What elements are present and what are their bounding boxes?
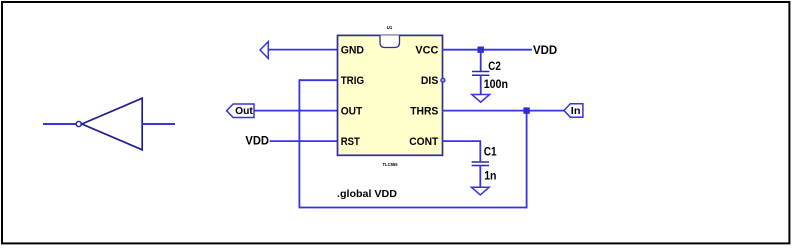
wire GND pin to arrow (268, 49, 338, 51)
svg-text:GND: GND (341, 44, 364, 56)
svg-text:100n: 100n (484, 77, 508, 91)
wire C2 to ground (480, 75, 482, 94)
DIS unconnected pin marker (441, 78, 445, 82)
capacitor C1 (472, 161, 489, 163)
capacitor C2 (472, 71, 489, 73)
junction at VCC/C2 (478, 47, 484, 53)
svg-text:TLC555: TLC555 (383, 162, 398, 168)
wire right vertical of feedback loop (526, 111, 528, 209)
inverter output wire (142, 123, 175, 125)
inverter bubble (76, 121, 81, 126)
ground symbol at C1 (471, 187, 489, 195)
svg-text:THRS: THRS (410, 106, 438, 118)
svg-text:VDD: VDD (245, 134, 269, 148)
port arrow on GND net (260, 42, 268, 59)
wire TRIG vertical down (298, 79, 300, 208)
svg-text:In: In (571, 106, 581, 117)
wire C1 to ground (479, 166, 481, 188)
inverter input wire (43, 123, 76, 125)
port In (564, 104, 583, 118)
wire CONT to C1 (442, 141, 480, 161)
svg-text:C1: C1 (484, 145, 497, 159)
wire THRS to junction and In port (442, 110, 564, 112)
wire OUT pin to Out port (254, 110, 338, 112)
svg-text:VCC: VCC (415, 44, 438, 56)
wire TRIG pin horizontal (299, 79, 338, 81)
wire junction down to C2 (480, 50, 482, 71)
junction at THRS (523, 107, 529, 113)
port Out (227, 104, 254, 118)
IC U1 body (338, 35, 443, 155)
svg-text:CONT: CONT (409, 136, 438, 148)
svg-text:DIS: DIS (421, 75, 438, 87)
svg-text:1n: 1n (484, 168, 496, 182)
svg-text:.global VDD: .global VDD (337, 188, 397, 200)
wire bottom horizontal of feedback loop (299, 207, 526, 209)
svg-text:C2: C2 (488, 59, 501, 73)
wire RST pin (270, 140, 338, 142)
svg-text:OUT: OUT (341, 106, 363, 118)
svg-text:RST: RST (341, 136, 360, 148)
svg-text:Out: Out (235, 106, 253, 117)
ground symbol at C2 (472, 95, 490, 103)
svg-text:TRIG: TRIG (341, 75, 364, 87)
inverter triangle (82, 98, 142, 150)
svg-text:VDD: VDD (533, 43, 558, 57)
svg-text:U1: U1 (387, 25, 393, 31)
wire VCC to VDD (442, 49, 532, 51)
IC U1 notch (380, 35, 400, 47)
